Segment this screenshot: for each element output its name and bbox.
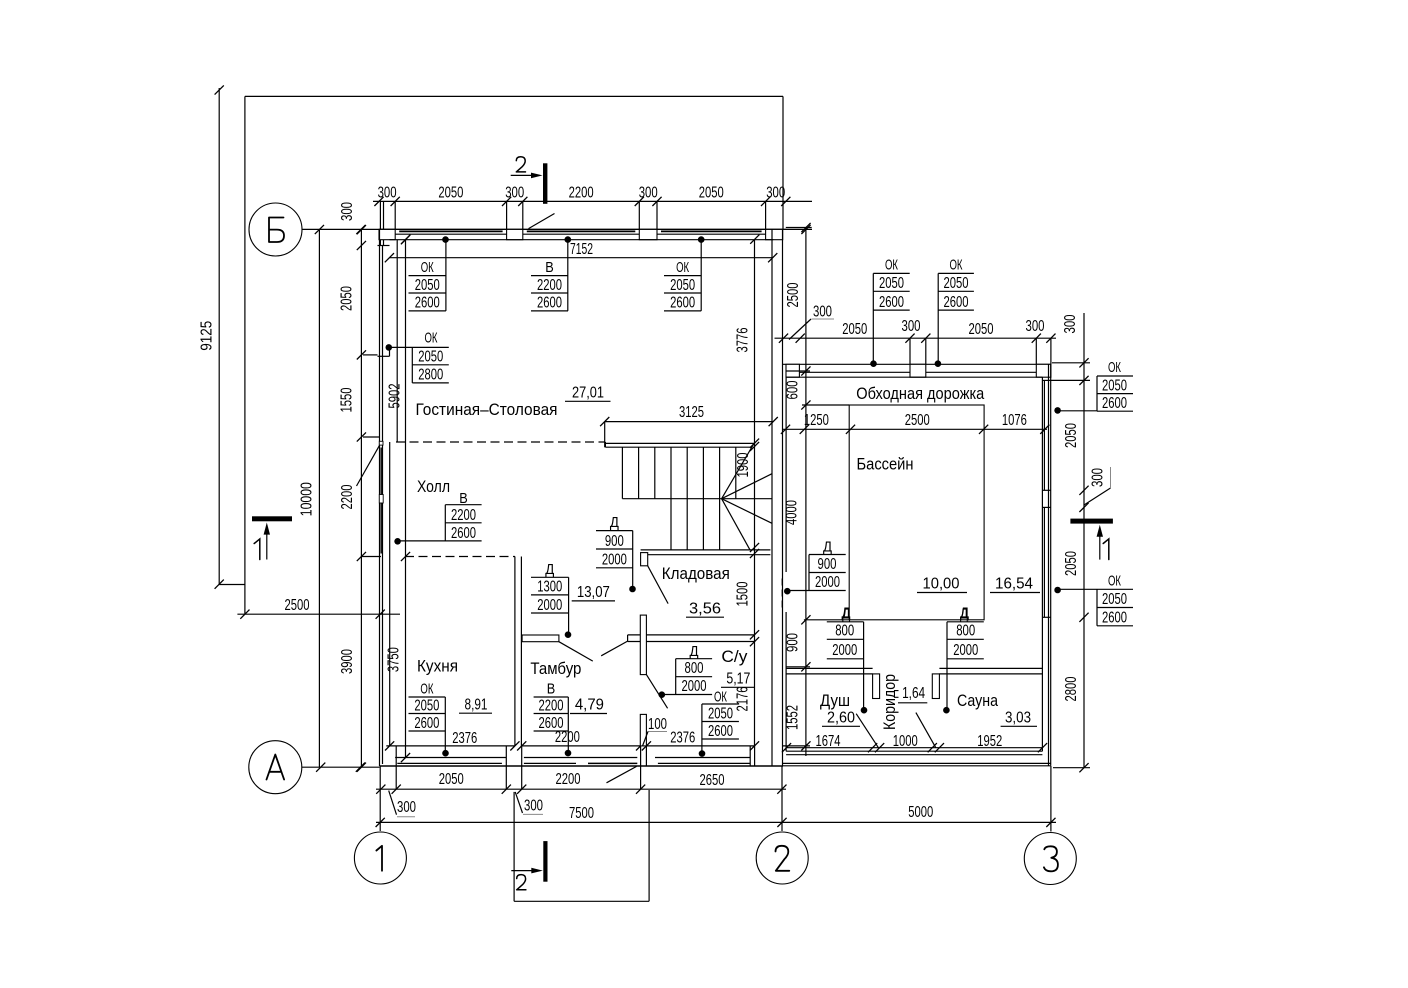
window label OK 2050/2600 pool north-west xyxy=(873,257,909,364)
300 leader label right chain xyxy=(1084,467,1111,505)
svg-text:2000: 2000 xyxy=(953,642,978,659)
left wall inner face upper xyxy=(396,240,398,442)
svg-text:Тамбур: Тамбур xyxy=(530,659,581,678)
svg-text:2000: 2000 xyxy=(682,678,707,695)
stairs top landing edge xyxy=(605,442,754,447)
svg-text:300: 300 xyxy=(639,185,658,202)
door label Д 900/2000 pool west xyxy=(787,539,845,591)
interior dim 3750 xyxy=(386,557,411,763)
svg-text:Бассейн: Бассейн xyxy=(857,455,914,474)
svg-text:В: В xyxy=(459,490,468,507)
bottom wall inner face tambour xyxy=(517,741,645,750)
partition kitchen-tambour xyxy=(515,557,522,746)
pool west door opening dashed xyxy=(781,579,783,612)
svg-text:2050: 2050 xyxy=(944,275,969,292)
door B swing leaf xyxy=(529,214,555,229)
svg-text:2200: 2200 xyxy=(569,185,594,202)
svg-text:300: 300 xyxy=(397,799,416,816)
svg-text:2176: 2176 xyxy=(735,687,752,712)
left wall second line xyxy=(382,246,384,765)
door label Д 1300/2000 tambour xyxy=(531,561,569,635)
door B top wall glazing xyxy=(523,231,640,234)
svg-text:2050: 2050 xyxy=(414,697,439,714)
svg-text:2050: 2050 xyxy=(708,705,733,722)
svg-text:2600: 2600 xyxy=(1102,395,1127,412)
svg-text:3,56: 3,56 xyxy=(689,601,721,618)
svg-text:1,64: 1,64 xyxy=(902,685,925,702)
bathroom west wall stub lower xyxy=(640,714,646,746)
shower-sauna north wall xyxy=(786,668,1042,674)
svg-text:10000: 10000 xyxy=(298,482,315,516)
storage door swing leaf xyxy=(648,566,668,604)
svg-text:300: 300 xyxy=(902,318,921,335)
svg-text:4,79: 4,79 xyxy=(575,697,604,714)
axis circle 3 xyxy=(1024,833,1076,885)
pool basin bottom extension with tick xyxy=(804,619,849,621)
bottom wall outer face xyxy=(380,765,784,767)
svg-text:ОК: ОК xyxy=(425,330,438,347)
site boundary inner vertical xyxy=(244,96,246,614)
bottom dim chain 7500/5000 xyxy=(376,804,1056,827)
area 3,03 xyxy=(1001,710,1037,727)
svg-text:3125: 3125 xyxy=(679,404,704,421)
top wall pier 1 xyxy=(379,229,395,239)
storage door jamb xyxy=(641,553,648,566)
svg-text:7152: 7152 xyxy=(570,241,593,258)
dim chain left x361 xyxy=(339,202,380,772)
section mark 2 top xyxy=(511,157,548,204)
corridor jamb right xyxy=(932,674,939,699)
pool right wall pier edges xyxy=(1042,380,1050,617)
svg-text:2600: 2600 xyxy=(670,295,695,312)
axis line А xyxy=(302,763,380,772)
extension lines to chain x1084 xyxy=(1051,363,1090,768)
area 1,64 xyxy=(898,685,927,703)
pool window N2 glazing xyxy=(926,371,1037,373)
svg-text:ОК: ОК xyxy=(1108,359,1121,376)
svg-text:Сауна: Сауна xyxy=(957,691,998,710)
window label OK 2050/2600 kitchen xyxy=(409,681,446,754)
axis circle А xyxy=(249,741,302,794)
svg-text:1952: 1952 xyxy=(977,733,1002,750)
svg-text:1500: 1500 xyxy=(735,581,752,606)
svg-text:ОК: ОК xyxy=(950,257,963,274)
corridor jamb left xyxy=(873,674,880,699)
svg-text:2600: 2600 xyxy=(708,723,733,740)
bottom wall recess lines xyxy=(395,757,750,759)
svg-text:900: 900 xyxy=(785,633,802,652)
svg-text:2800: 2800 xyxy=(418,367,443,384)
svg-text:300: 300 xyxy=(1026,318,1045,335)
pool top wall inner face xyxy=(786,376,1042,378)
top wall pier 3 xyxy=(639,229,657,239)
svg-text:2600: 2600 xyxy=(451,525,476,542)
svg-text:3750: 3750 xyxy=(386,647,403,672)
svg-text:2050: 2050 xyxy=(1102,377,1127,394)
door label Д 800/2000 bathroom xyxy=(662,643,712,695)
left wall inner face lower xyxy=(389,442,391,746)
svg-text:300: 300 xyxy=(378,185,397,202)
top wall pier 4 xyxy=(766,229,783,239)
svg-text:ОК: ОК xyxy=(421,259,434,276)
section mark 1 left xyxy=(252,516,292,559)
svg-text:ОК: ОК xyxy=(420,681,433,698)
area 13,07 xyxy=(572,584,615,601)
pool top wall pier 2 xyxy=(910,364,926,377)
svg-text:300: 300 xyxy=(505,185,524,202)
300 leader label bottom mid xyxy=(515,792,543,815)
dashed boundary hall / kitchen-tambour xyxy=(362,556,381,558)
svg-text:2800: 2800 xyxy=(1063,676,1080,701)
svg-text:Д: Д xyxy=(545,561,554,578)
pool window E1 glazing xyxy=(1043,380,1045,490)
svg-text:2600: 2600 xyxy=(944,294,969,311)
svg-text:13,07: 13,07 xyxy=(577,584,610,601)
svg-text:2200: 2200 xyxy=(339,484,356,509)
pool house bottom wall inner lines xyxy=(786,751,1042,755)
window label OK 2050/2600 pool east-bottom xyxy=(1058,573,1133,627)
svg-text:2050: 2050 xyxy=(699,185,724,202)
svg-text:7500: 7500 xyxy=(569,805,594,822)
svg-text:900: 900 xyxy=(605,533,624,550)
site boundary left vertical 9125 xyxy=(199,85,224,588)
svg-text:27,01: 27,01 xyxy=(572,385,604,402)
bathroom west wall stub upper xyxy=(640,615,646,675)
svg-text:2050: 2050 xyxy=(1063,423,1080,448)
svg-text:В: В xyxy=(547,681,556,698)
window label OK 2050/2600 pool east-top xyxy=(1058,359,1133,412)
bathroom north wall xyxy=(628,635,755,642)
leader dots windows and doors xyxy=(386,236,1061,757)
area 3,56 xyxy=(686,601,724,618)
pool basin top extension xyxy=(802,404,849,406)
section mark 2 bottom frame xyxy=(514,790,649,901)
svg-text:10,00: 10,00 xyxy=(923,576,960,593)
svg-text:Гостиная–Столовая: Гостиная–Столовая xyxy=(416,400,558,419)
svg-text:1300: 1300 xyxy=(537,579,562,596)
pool house 300 leader label top-left xyxy=(789,304,834,340)
svg-text:ОК: ОК xyxy=(714,689,727,706)
svg-text:2500: 2500 xyxy=(285,597,310,614)
window label OK 2050/2600 top-left xyxy=(409,240,446,312)
bottom wall inner face kitchen xyxy=(385,741,520,750)
bottom dim chain 300/2050/300/2200/2650 xyxy=(376,771,787,794)
hall door B jamb top xyxy=(379,441,383,445)
svg-text:5000: 5000 xyxy=(908,804,933,821)
svg-text:2376: 2376 xyxy=(670,730,695,747)
svg-text:1250: 1250 xyxy=(804,412,829,429)
svg-text:2050: 2050 xyxy=(969,321,994,338)
svg-text:2,60: 2,60 xyxy=(827,710,855,727)
pool top wall pier 3 xyxy=(1036,364,1051,377)
label 100 partition thickness xyxy=(643,716,668,746)
left wall outer face xyxy=(379,229,381,766)
bottom wall entrance door glazing xyxy=(524,762,637,764)
svg-text:2500: 2500 xyxy=(905,412,930,429)
svg-text:2600: 2600 xyxy=(415,295,440,312)
stairs upper flight treads xyxy=(622,447,735,499)
window W2 top wall glazing xyxy=(657,231,766,234)
door label В 2200/2600 hall left wall xyxy=(398,490,482,542)
svg-text:2050: 2050 xyxy=(670,277,695,294)
svg-text:5902: 5902 xyxy=(387,384,404,409)
left wall window reveal bottom xyxy=(378,347,390,356)
extension lines to chain x806 xyxy=(783,371,810,746)
dim line 2500 left xyxy=(237,597,400,619)
svg-text:2050: 2050 xyxy=(438,185,463,202)
section mark 1 right xyxy=(1070,519,1113,560)
door label В 2200/2600 top-mid xyxy=(531,240,568,312)
svg-text:2050: 2050 xyxy=(1063,551,1080,576)
svg-text:2050: 2050 xyxy=(339,286,356,311)
svg-text:2376: 2376 xyxy=(452,730,477,747)
window label OK 2050/2800 left wall xyxy=(389,330,449,384)
area 4,79 xyxy=(570,697,607,714)
svg-text:Д: Д xyxy=(842,606,850,623)
svg-text:ОК: ОК xyxy=(1108,573,1121,590)
svg-text:300: 300 xyxy=(766,185,785,202)
svg-text:3776: 3776 xyxy=(735,328,752,353)
svg-text:Кухня: Кухня xyxy=(417,657,458,676)
dim chain pool-left x806 xyxy=(784,223,811,756)
site boundary right vertical xyxy=(782,96,784,229)
svg-text:Д: Д xyxy=(960,606,968,623)
svg-text:1674: 1674 xyxy=(816,733,841,750)
svg-text:800: 800 xyxy=(835,623,854,640)
svg-text:1552: 1552 xyxy=(785,705,802,730)
bottom wall inner face bathroom xyxy=(642,741,755,750)
dashed boundary living room / hall xyxy=(396,441,605,443)
bottom wall window bathroom glazing xyxy=(658,762,750,764)
sauna door swing leaf xyxy=(916,713,936,748)
hall door B jamb middle xyxy=(379,495,383,504)
svg-text:2600: 2600 xyxy=(538,715,563,732)
bathroom door swing leaf xyxy=(646,675,667,709)
axis circle Б xyxy=(249,203,302,256)
axis circle 1 xyxy=(354,832,406,884)
svg-text:2050: 2050 xyxy=(842,321,867,338)
axis line Б xyxy=(302,225,812,234)
svg-text:1076: 1076 xyxy=(1002,412,1027,429)
door label Д 800/2000 sauna xyxy=(947,605,984,711)
svg-text:ОК: ОК xyxy=(676,259,689,276)
svg-text:2600: 2600 xyxy=(1102,609,1127,626)
svg-text:Д: Д xyxy=(610,514,619,531)
extension lines bottom xyxy=(380,766,1051,832)
svg-text:С/у: С/у xyxy=(721,647,748,666)
svg-text:100: 100 xyxy=(648,716,667,733)
svg-text:2000: 2000 xyxy=(602,552,627,569)
extension line 10000 xyxy=(298,230,319,768)
svg-text:1000: 1000 xyxy=(893,733,918,750)
pool house bottom wall outer face xyxy=(783,763,1051,765)
hall door B swing leaf xyxy=(357,446,380,486)
tambour double door swing left xyxy=(559,642,593,661)
svg-text:Коридор: Коридор xyxy=(880,674,899,730)
svg-text:600: 600 xyxy=(785,380,802,399)
svg-text:900: 900 xyxy=(818,556,837,573)
pool house top wall outer face xyxy=(783,363,1051,365)
pool top wall pier 1 xyxy=(786,364,799,377)
axis circle 2 xyxy=(756,832,808,884)
svg-text:Душ: Душ xyxy=(820,691,850,710)
stairs bottom landing edge xyxy=(641,550,771,555)
entrance door swing leaf xyxy=(607,766,637,783)
door label Д 800/2000 shower xyxy=(827,605,864,711)
pool east wall second line xyxy=(1048,364,1050,765)
site boundary step horizontal xyxy=(219,584,245,586)
300 leader label bottom left xyxy=(389,791,417,817)
svg-text:300: 300 xyxy=(813,304,832,321)
svg-text:1900: 1900 xyxy=(735,452,752,477)
bottom wall window kitchen glazing xyxy=(397,762,502,764)
svg-text:2600: 2600 xyxy=(537,295,562,312)
area 27,01 xyxy=(565,385,611,402)
site boundary top horizontal xyxy=(245,95,783,97)
svg-text:2050: 2050 xyxy=(415,277,440,294)
top wall recess line xyxy=(390,235,774,244)
svg-text:2050: 2050 xyxy=(439,771,464,788)
svg-text:2600: 2600 xyxy=(879,294,904,311)
tambour double door swing right xyxy=(601,641,627,656)
svg-text:Д: Д xyxy=(690,643,699,660)
svg-text:Кладовая: Кладовая xyxy=(662,564,730,583)
pool window N1 glazing xyxy=(799,371,910,373)
window label OK 2050/2600 pool north-east xyxy=(938,257,974,364)
stairs winder fan xyxy=(722,443,772,550)
top wall outer face xyxy=(379,228,786,230)
right wall mid line xyxy=(771,229,773,766)
svg-text:16,54: 16,54 xyxy=(995,576,1033,593)
svg-text:2650: 2650 xyxy=(700,772,725,789)
svg-text:Холл: Холл xyxy=(417,477,450,496)
area 8,91 xyxy=(459,697,492,714)
area 2,60 xyxy=(822,710,860,727)
dim chain far right x1084 xyxy=(1062,313,1089,772)
stairs lower flight treads xyxy=(671,499,720,550)
svg-text:2050: 2050 xyxy=(879,275,904,292)
svg-text:Д: Д xyxy=(823,539,832,556)
svg-text:2000: 2000 xyxy=(815,574,840,591)
svg-text:4000: 4000 xyxy=(784,500,801,525)
right wall inner face with interior dims xyxy=(735,240,760,751)
pool house right wall outer face xyxy=(1050,364,1052,765)
svg-text:300: 300 xyxy=(524,798,543,815)
svg-text:300: 300 xyxy=(1062,314,1079,333)
svg-text:2000: 2000 xyxy=(832,642,857,659)
svg-text:800: 800 xyxy=(685,660,704,677)
window label OK 2050/2600 top-right xyxy=(664,240,701,312)
window W1 top wall glazing xyxy=(395,231,506,234)
door label Д 900/2000 storage xyxy=(596,514,633,589)
area 5,17 xyxy=(721,671,755,688)
svg-text:2000: 2000 xyxy=(537,597,562,614)
pool house top dim chain xyxy=(775,318,1057,364)
svg-text:2200: 2200 xyxy=(451,507,476,524)
svg-text:9125: 9125 xyxy=(199,321,216,351)
top wall pier 2 xyxy=(507,229,523,239)
svg-text:8,91: 8,91 xyxy=(465,697,488,714)
svg-text:2200: 2200 xyxy=(538,697,563,714)
left wall window reveal top xyxy=(378,245,390,247)
svg-text:Обходная дорожка: Обходная дорожка xyxy=(856,384,984,403)
stairs dim 3125 xyxy=(600,404,778,447)
right wall outer face xyxy=(782,229,784,766)
svg-text:2600: 2600 xyxy=(414,715,439,732)
section mark 2 bottom xyxy=(511,841,547,890)
svg-text:1550: 1550 xyxy=(339,387,356,412)
top dim chain 300/2050/300/2200/300/2050/300 xyxy=(373,185,812,246)
svg-text:В: В xyxy=(545,259,554,276)
walkway dim chain 1250/2500/1076 xyxy=(781,412,1050,434)
pool basin xyxy=(849,405,984,620)
svg-text:5,17: 5,17 xyxy=(726,671,750,688)
svg-text:2200: 2200 xyxy=(537,277,562,294)
area 10,00 xyxy=(917,576,967,593)
pool window E2 glazing xyxy=(1043,507,1045,617)
svg-text:800: 800 xyxy=(956,623,975,640)
shower door swing leaf xyxy=(856,714,878,748)
svg-text:2050: 2050 xyxy=(418,349,443,366)
svg-text:2500: 2500 xyxy=(785,282,802,307)
pool house left wall inner face xyxy=(785,377,787,751)
tambour north wall left bar xyxy=(522,635,559,642)
door label В 2200/2600 entrance xyxy=(534,681,569,754)
area 16,54 xyxy=(990,576,1040,593)
svg-text:2050: 2050 xyxy=(1102,591,1127,608)
svg-text:ОК: ОК xyxy=(885,257,898,274)
bottom wall piers xyxy=(396,746,754,766)
interior dim 5902 xyxy=(387,235,411,561)
svg-text:300: 300 xyxy=(339,202,356,221)
interior dim line shower/corridor/sauna xyxy=(782,733,1047,752)
svg-text:3900: 3900 xyxy=(339,649,356,674)
svg-text:300: 300 xyxy=(1090,468,1107,487)
svg-text:3,03: 3,03 xyxy=(1005,710,1031,727)
svg-text:2200: 2200 xyxy=(556,771,581,788)
hall door B thick opening line xyxy=(380,448,382,554)
window label OK 2050/2600 bathroom xyxy=(702,689,739,754)
pool house right wall inner face xyxy=(1041,377,1043,751)
top wall inner face xyxy=(385,253,778,262)
